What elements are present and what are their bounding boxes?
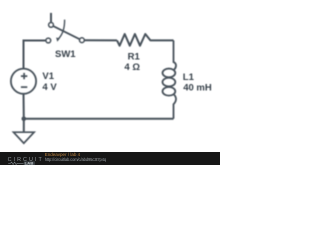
svg-text:LAB: LAB: [25, 160, 34, 165]
svg-text:http://circuitlab.com/c/abd95c: http://circuitlab.com/c/abd95c3t7p4q: [45, 157, 107, 162]
